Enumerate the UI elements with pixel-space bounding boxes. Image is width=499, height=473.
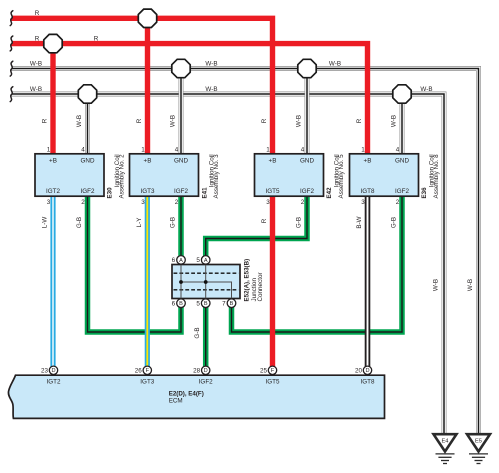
svg-text:G-B: G-B xyxy=(296,217,303,228)
svg-text:R: R xyxy=(35,36,40,43)
svg-text:5: 5 xyxy=(196,301,200,308)
ground E5 hatch bars xyxy=(469,454,488,464)
svg-text:A: A xyxy=(179,258,183,264)
svg-text:IGT8: IGT8 xyxy=(361,188,375,195)
svg-text:R: R xyxy=(261,218,268,223)
svg-text:R: R xyxy=(94,36,99,43)
svg-text:GND: GND xyxy=(395,158,409,165)
svg-text:F: F xyxy=(146,368,150,374)
svg-text:G-B: G-B xyxy=(170,217,177,228)
junction internal dashed bus lower xyxy=(174,289,239,291)
svg-text:IGF2: IGF2 xyxy=(199,378,213,385)
svg-text:+B: +B xyxy=(49,158,57,165)
wire L-W from E30 IGT2 to ECM pin 23 xyxy=(50,196,55,368)
svg-text:E2(D), E4(F): E2(D), E4(F) xyxy=(169,390,204,397)
svg-text:R: R xyxy=(136,118,143,123)
svg-text:D: D xyxy=(204,368,208,374)
junction pin 7B circle xyxy=(227,299,236,308)
svg-text:Assembly No. 5: Assembly No. 5 xyxy=(338,154,345,199)
junction pin 6B circle xyxy=(177,299,186,308)
svg-text:+B: +B xyxy=(144,158,152,165)
wire R main feed 1 horizontal turning down to E42 +B xyxy=(12,18,273,154)
wire R drop from octagon to E41 +B pin 1 xyxy=(145,18,150,154)
svg-text:W-B: W-B xyxy=(205,86,217,93)
svg-text:D: D xyxy=(365,368,369,374)
svg-text:IGT5: IGT5 xyxy=(266,378,280,385)
break symbol wire W-B 1 xyxy=(10,61,13,76)
svg-text:6: 6 xyxy=(172,301,176,308)
svg-text:W-B: W-B xyxy=(30,86,42,93)
break symbol wire R1 xyxy=(10,11,13,26)
svg-text:2: 2 xyxy=(396,199,400,206)
svg-text:ECM: ECM xyxy=(169,397,183,404)
svg-text:4: 4 xyxy=(81,146,85,153)
svg-text:D: D xyxy=(51,368,55,374)
svg-text:E30: E30 xyxy=(107,187,114,199)
svg-text:G-B: G-B xyxy=(194,327,201,338)
svg-text:GND: GND xyxy=(174,158,188,165)
svg-text:E5: E5 xyxy=(475,439,482,445)
ignition coil box U2 E41 xyxy=(130,154,199,196)
wire W-B drop to E42 GND pin 4 xyxy=(305,69,310,154)
wire R drop from octagon to E30 +B pin 1 xyxy=(50,44,55,154)
svg-text:GND: GND xyxy=(81,158,95,165)
svg-text:Assembly No. 2: Assembly No. 2 xyxy=(119,154,126,199)
svg-text:W-B: W-B xyxy=(391,115,398,127)
wire W-B bus 2 horizontal to E4 ground xyxy=(12,94,445,434)
wire B-W from E36 IGT8 to ECM pin 20 xyxy=(365,196,371,368)
connector octagon on R2 feeding E30 xyxy=(44,34,62,52)
svg-text:23: 23 xyxy=(41,368,49,375)
svg-text:L-Y: L-Y xyxy=(136,217,143,228)
svg-text:L-W: L-W xyxy=(42,217,49,229)
svg-text:28: 28 xyxy=(193,368,201,375)
svg-text:B: B xyxy=(179,301,183,307)
svg-text:E52(A), E53(B): E52(A), E53(B) xyxy=(243,259,250,302)
wire L-Y from E41 IGT3 to ECM pin 26 xyxy=(145,196,150,368)
wire G-B from E41 IGF2 to junction pin 6A xyxy=(178,196,184,256)
wire R from E42 IGT5 to ECM pin 25 xyxy=(270,196,275,368)
svg-text:4: 4 xyxy=(301,146,305,153)
svg-text:W-B: W-B xyxy=(296,115,303,127)
junction internal link pin6 column xyxy=(180,265,182,299)
svg-text:20: 20 xyxy=(355,368,363,375)
junction internal node dot pin5 xyxy=(204,280,208,284)
junction internal node dot pin6 xyxy=(179,280,183,284)
junction internal link pin5 column xyxy=(205,265,207,299)
svg-text:W-B: W-B xyxy=(170,115,177,127)
ECM pin 28 circle D xyxy=(202,366,210,374)
svg-text:IGT3: IGT3 xyxy=(141,188,155,195)
svg-text:IGT2: IGT2 xyxy=(47,378,61,385)
svg-text:7: 7 xyxy=(222,301,226,308)
svg-text:6: 6 xyxy=(172,257,176,264)
svg-text:B: B xyxy=(204,301,208,307)
svg-text:G-B: G-B xyxy=(391,217,398,228)
ECM pin 23 circle D xyxy=(49,366,57,374)
wire G-B from E30 IGF2 to junction pin 6B xyxy=(88,196,182,332)
svg-text:W-B: W-B xyxy=(433,279,440,291)
svg-text:3: 3 xyxy=(47,199,51,206)
svg-text:2: 2 xyxy=(175,199,179,206)
ECM pin 20 circle D xyxy=(363,366,371,374)
svg-text:1: 1 xyxy=(361,146,365,153)
svg-text:25: 25 xyxy=(260,368,268,375)
svg-text:IGF2: IGF2 xyxy=(174,188,188,195)
svg-text:E42: E42 xyxy=(326,187,333,199)
svg-text:R: R xyxy=(35,10,40,17)
junction pin 5B circle xyxy=(201,299,210,308)
svg-text:3: 3 xyxy=(141,199,145,206)
junction connector box E52/E53 xyxy=(172,265,240,299)
break symbol wire W-B 2 xyxy=(10,87,13,102)
svg-text:+B: +B xyxy=(364,158,372,165)
wire W-B drop to E36 GND pin 4 xyxy=(400,94,405,154)
ground E5 triangle xyxy=(467,434,490,451)
svg-text:2: 2 xyxy=(301,199,305,206)
svg-text:B: B xyxy=(230,301,234,307)
svg-text:+B: +B xyxy=(269,158,277,165)
ignition coil box U4 E36 xyxy=(350,154,419,196)
svg-text:W-B: W-B xyxy=(30,61,42,68)
svg-text:3: 3 xyxy=(266,199,270,206)
ECM box E2/E4 xyxy=(8,375,384,418)
svg-text:W-B: W-B xyxy=(467,279,474,291)
svg-text:W-B: W-B xyxy=(420,86,432,93)
ground E4 hatch bars xyxy=(436,454,455,464)
connector octagon on R1 feeding E41 xyxy=(138,9,156,27)
svg-text:1: 1 xyxy=(266,146,270,153)
connector octagon on W-B1 feeding E41 GND xyxy=(172,59,190,77)
wire G-B from E36 IGF2 to junction pin 7B xyxy=(232,196,403,332)
svg-text:A: A xyxy=(204,258,208,264)
wire W-B drop to E30 GND pin 4 xyxy=(85,94,90,154)
ignition coil box U3 E42 xyxy=(255,154,324,196)
svg-text:5: 5 xyxy=(196,257,200,264)
svg-text:GND: GND xyxy=(300,158,314,165)
svg-text:4: 4 xyxy=(175,146,179,153)
svg-text:IGF2: IGF2 xyxy=(300,188,314,195)
svg-text:1: 1 xyxy=(141,146,145,153)
svg-text:IGT3: IGT3 xyxy=(140,378,154,385)
svg-text:W-B: W-B xyxy=(205,61,217,68)
ignition coil box U1 E30 xyxy=(35,154,104,196)
svg-text:IGF2: IGF2 xyxy=(395,188,409,195)
wire G-B from junction pin 5B to ECM IGF2 xyxy=(203,305,209,368)
wire R main feed 2 horizontal turning down to E36 +B xyxy=(12,44,368,154)
ECM pin 26 circle F xyxy=(143,366,151,374)
svg-text:E4: E4 xyxy=(442,439,449,445)
svg-text:R: R xyxy=(261,118,268,123)
wire W-B drop to E41 GND pin 4 xyxy=(179,69,184,154)
ground E4 triangle xyxy=(434,434,457,451)
svg-text:IGT2: IGT2 xyxy=(46,188,60,195)
svg-text:E36: E36 xyxy=(421,187,428,199)
svg-text:Assembly No. 3: Assembly No. 3 xyxy=(213,154,220,199)
svg-text:W-B: W-B xyxy=(329,61,341,68)
svg-text:B-W: B-W xyxy=(356,216,363,228)
junction pin 6A circle xyxy=(177,256,186,265)
svg-text:G-B: G-B xyxy=(76,217,83,228)
connector octagon on W-B2 feeding E30 GND xyxy=(78,85,96,103)
wire W-B bus 1 horizontal to E5 ground xyxy=(12,69,479,434)
svg-text:3: 3 xyxy=(361,199,365,206)
svg-text:IGF2: IGF2 xyxy=(81,188,95,195)
connector octagon on W-B1 feeding E42 GND xyxy=(298,59,316,77)
svg-text:2: 2 xyxy=(81,199,85,206)
svg-text:R: R xyxy=(42,118,49,123)
svg-text:IGT8: IGT8 xyxy=(361,378,375,385)
svg-text:26: 26 xyxy=(135,368,143,375)
break symbol wire R2 xyxy=(10,36,13,51)
ECM pin 25 circle F xyxy=(268,366,276,374)
junction pin 5A circle xyxy=(201,256,210,265)
svg-text:Connector: Connector xyxy=(257,272,264,301)
svg-text:4: 4 xyxy=(396,146,400,153)
junction internal link bus to pin7 xyxy=(181,282,232,299)
junction internal dashed bus upper xyxy=(174,272,239,274)
svg-text:1: 1 xyxy=(47,146,51,153)
svg-text:F: F xyxy=(271,368,275,374)
svg-text:IGT5: IGT5 xyxy=(266,188,280,195)
svg-text:R: R xyxy=(356,118,363,123)
svg-text:E41: E41 xyxy=(202,187,209,199)
svg-text:W-B: W-B xyxy=(76,115,83,127)
svg-text:Assembly No. 8: Assembly No. 8 xyxy=(433,154,440,199)
wire G-B from E42 IGF2 to junction pin 5A xyxy=(206,196,307,256)
connector octagon on W-B2 feeding E36 GND xyxy=(393,85,411,103)
